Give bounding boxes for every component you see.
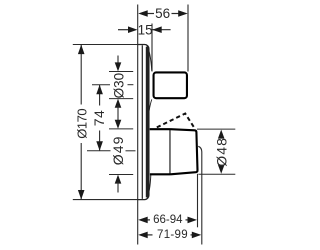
plate front rim band — [146, 47, 149, 198]
wire: top extension y=129.1 — [197, 128, 235, 130]
plate front face curve bottom — [147, 175, 151, 199]
hook + extension for 71-99 — [198, 146, 202, 244]
lower sleeve — [150, 129, 171, 174]
dimension 56 — [138, 10, 188, 17]
svg-text:Ø48: Ø48 — [213, 137, 229, 167]
wire: bottom extension line of dia170 at y=199.6 — [73, 199, 138, 201]
svg-text:71-99: 71-99 — [157, 229, 188, 241]
svg-text:15: 15 — [138, 23, 153, 38]
dimension dia48 — [197, 129, 235, 174]
svg-text:Ø170: Ø170 — [75, 109, 90, 139]
wire: bottom extension y=174.2 — [198, 173, 235, 175]
svg-text:Ø49: Ø49 — [110, 136, 126, 166]
dimension dia49 — [109, 106, 133, 193]
wire: extension line x=152 (15 dim) — [151, 24, 153, 72]
node: tick y=84.7 — [92, 84, 110, 86]
lower handle (tilted knob) — [171, 129, 198, 174]
wire: long left extension line x=137.7 — [137, 5, 139, 245]
dimension 71-99 — [138, 232, 201, 239]
plate inner step line — [141, 45, 143, 199]
dimension 74 — [87, 85, 136, 151]
wire: right extension line x=188 (56 dim) — [187, 5, 189, 72]
dimension 15 — [118, 26, 171, 33]
escutcheon plate (side view) — [138, 45, 152, 200]
upper handle (square stem knob) — [154, 72, 187, 98]
plate front face curve top — [147, 45, 152, 70]
node: tick y=150.8 — [87, 150, 111, 152]
dashed rotated handle position — [157, 114, 194, 128]
wire: top extension line of dia170 at y=44.5 — [73, 44, 147, 46]
extension for 66-94 — [197, 174, 199, 228]
dimension 66-94 — [138, 217, 197, 224]
svg-text:56: 56 — [155, 6, 170, 21]
dimension dia30 — [109, 56, 133, 108]
dimension dia170 — [78, 45, 85, 200]
svg-text:66-94: 66-94 — [153, 214, 183, 226]
plate front face curve below handle — [149, 99, 152, 110]
svg-text:74: 74 — [91, 110, 107, 126]
svg-text:Ø30: Ø30 — [112, 73, 127, 99]
